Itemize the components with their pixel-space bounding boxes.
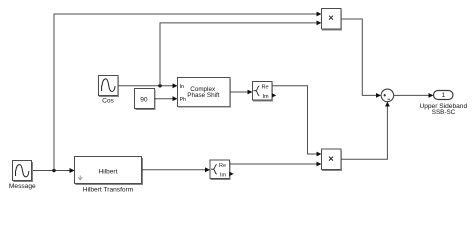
- svg-text:Message: Message: [9, 183, 36, 190]
- label Upper Sideband SSB-SC: [419, 103, 467, 116]
- svg-text:Ph: Ph: [180, 97, 187, 103]
- svg-text:Re: Re: [262, 85, 269, 91]
- wire junction C up and across to product X1 input 2: [160, 21, 322, 86]
- svg-text:Im: Im: [263, 94, 270, 100]
- block Hilbert Transform: [70, 157, 143, 185]
- svg-text:Hilbert Transform: Hilbert Transform: [83, 186, 134, 193]
- svg-text:90: 90: [140, 96, 148, 103]
- wire 90 to Complex Phase Shift Ph: [155, 96, 178, 101]
- svg-text:Cos: Cos: [102, 97, 114, 104]
- outport 1: [434, 91, 454, 100]
- wire Cos to Complex Phase Shift In: [118, 83, 178, 88]
- wire product X2 to Sum bottom input: [341, 102, 390, 160]
- svg-text:Hilbert: Hilbert: [99, 168, 118, 175]
- wire product X1 to Sum left input: [341, 19, 381, 98]
- svg-text:1: 1: [442, 92, 446, 99]
- block Complex Phase Shift: [178, 78, 231, 108]
- wire Complex Phase Shift to ComplexToRealImag1: [230, 90, 253, 95]
- svg-text:Re: Re: [219, 163, 226, 169]
- junction dot node C: [158, 84, 161, 87]
- source block Message (sine wave source): [13, 161, 33, 182]
- junction dot node M: [52, 169, 55, 172]
- wire Sum to outport: [394, 93, 434, 98]
- sum block (+ -): [381, 89, 394, 102]
- svg-text:Phase Shift: Phase Shift: [187, 92, 219, 99]
- wire junction M up and across to product X1 input 1: [54, 12, 322, 171]
- block ComplexToRealImag1 (Re/Im): [253, 82, 277, 102]
- svg-text:SSB-SC: SSB-SC: [432, 109, 456, 116]
- svg-text:In: In: [180, 84, 185, 90]
- product block X1: [322, 9, 342, 31]
- wire Hilbert to ComplexToRealImag2: [142, 167, 211, 172]
- product block X2: [322, 149, 342, 171]
- wire ComplexToRealImag1 Re down to product X2 input 1: [272, 86, 322, 157]
- wire Message to Hilbert (net M): [32, 168, 75, 173]
- block ComplexToRealImag2 (Re/Im): [210, 160, 234, 180]
- wire ComplexToRealImag2 Re to product X2 input 2: [230, 162, 322, 167]
- svg-text:Im: Im: [220, 172, 227, 178]
- constant block 90: [135, 89, 156, 110]
- source block Cos (sine wave source): [99, 76, 119, 97]
